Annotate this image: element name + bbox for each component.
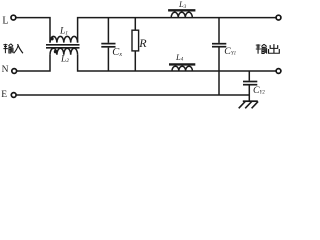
svg-text:N: N [2, 65, 9, 75]
svg-text:E: E [1, 90, 7, 100]
svg-text:R: R [138, 36, 147, 50]
svg-text:L: L [2, 15, 8, 26]
